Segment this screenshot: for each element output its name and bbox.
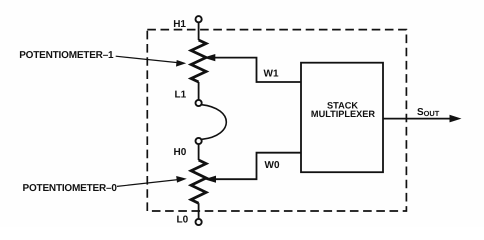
wiper arrowhead W0 (204, 176, 216, 183)
svg-text:H1: H1 (173, 19, 186, 30)
wire R1 to L1 (198, 82, 200, 100)
svg-text:L0: L0 (177, 214, 189, 225)
wiper arrow W1 wire (214, 58, 301, 82)
leader arrow to R0 (117, 180, 178, 187)
wiper arrowhead W1 (203, 54, 215, 61)
wiper arrow W0 wire (215, 153, 302, 180)
svg-text:POTENTIOMETER–0: POTENTIOMETER–0 (23, 183, 118, 194)
svg-text:SOUT: SOUT (417, 107, 440, 118)
terminal L0 (196, 219, 202, 225)
stack multiplexer U1 box (301, 63, 383, 173)
svg-text:MULTIPLEXER: MULTIPLEXER (311, 109, 376, 119)
svg-text:POTENTIOMETER–1: POTENTIOMETER–1 (19, 50, 114, 61)
output wire S_OUT (383, 118, 451, 120)
terminal H1 (196, 16, 202, 22)
wire H1 to R1 (198, 23, 200, 40)
svg-text:L1: L1 (175, 90, 187, 101)
svg-text:H0: H0 (174, 147, 187, 158)
svg-text:W0: W0 (265, 160, 280, 171)
potentiometer R0 (POTENTIOMETER-0) (191, 160, 206, 203)
wire L1 to H0 jumper arc (202, 105, 227, 140)
terminal L1 (196, 100, 202, 106)
IC boundary dashed box (147, 30, 406, 211)
wire R0 to L0 (198, 203, 200, 218)
svg-text:W1: W1 (264, 69, 279, 80)
leader arrow to R1 (116, 56, 178, 62)
output arrowhead (450, 115, 462, 123)
potentiometer R1 (POTENTIOMETER-1) (191, 40, 206, 82)
terminal H0 (196, 138, 202, 144)
wire H0 to R0 (198, 144, 200, 160)
